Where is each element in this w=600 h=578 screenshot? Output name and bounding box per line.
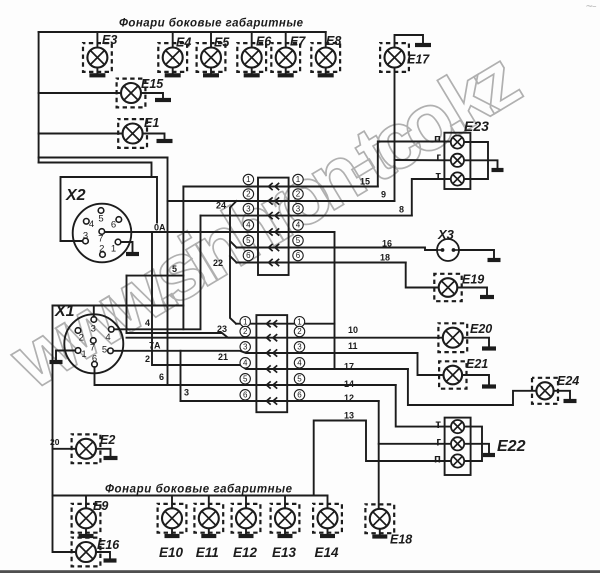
wire wire17 E24: [408, 369, 537, 405]
lamp E14: [313, 504, 342, 533]
svg-text:E2: E2: [100, 433, 115, 447]
svg-text:E8: E8: [326, 34, 341, 48]
wire wire3 riser: [180, 351, 182, 401]
ground E14: [320, 534, 335, 538]
svg-text:⁓–: ⁓–: [586, 3, 597, 10]
wire E14 stub: [327, 496, 329, 509]
svg-text:1: 1: [243, 317, 248, 326]
pin number 1: [294, 317, 304, 327]
svg-text:1: 1: [246, 175, 251, 184]
svg-text:9: 9: [381, 190, 386, 200]
wire E11 stub: [208, 496, 210, 509]
wire row4: [258, 231, 335, 233]
wire X1 pin6 wire 6: [95, 367, 257, 385]
svg-text:т: т: [435, 419, 441, 431]
lamp E23 p: [451, 135, 464, 148]
wire E13 gnd stub: [284, 529, 286, 535]
svg-text:12: 12: [344, 393, 354, 403]
svg-text:3: 3: [91, 324, 96, 335]
wire l-row1: [236, 323, 335, 325]
pin number 5: [294, 374, 304, 384]
connector X3: [437, 239, 459, 261]
svg-text:п: п: [434, 454, 441, 466]
wire E23 g out: [464, 160, 498, 168]
wire E1 gnd wire: [143, 134, 165, 140]
pin number 6: [294, 390, 304, 400]
svg-text:E24: E24: [557, 374, 579, 388]
wire X1 pin4 wire 4: [114, 216, 200, 330]
svg-text:5: 5: [243, 375, 248, 384]
pin number 1: [293, 174, 303, 184]
svg-text:15: 15: [360, 177, 370, 187]
wire chain to5: [230, 241, 237, 248]
wire E1 feed: [39, 133, 123, 135]
svg-text:14: 14: [344, 379, 354, 389]
ground E12: [239, 534, 254, 538]
wire vert x151 wire 2: [152, 232, 256, 369]
pin number 5: [243, 235, 253, 245]
wire E7 gnd stub: [285, 68, 287, 74]
wire E23 p out: [464, 142, 488, 179]
svg-text:5: 5: [296, 236, 301, 245]
svg-text:Фонари боковые габаритные: Фонари боковые габаритные: [119, 18, 304, 30]
lamp E17: [380, 43, 409, 72]
wire wire14 E22t: [396, 385, 452, 427]
wire l-row6: [181, 400, 379, 402]
svg-text:т: т: [435, 171, 441, 183]
ground E16: [104, 558, 117, 562]
svg-text:1: 1: [296, 175, 301, 184]
svg-text:16: 16: [382, 239, 392, 249]
svg-text:6: 6: [243, 391, 248, 400]
svg-text:2: 2: [79, 333, 84, 344]
wire E18 gnd stub: [379, 529, 381, 535]
wire E22 t out: [464, 427, 482, 461]
pin X1-3: [91, 317, 97, 323]
svg-text:E7: E7: [290, 35, 306, 49]
svg-text:2: 2: [296, 190, 301, 199]
wire E15 gnd wire: [141, 93, 163, 98]
wire l-row5: [256, 384, 395, 386]
wire wire5 chain: [126, 276, 128, 333]
svg-text:1: 1: [111, 244, 116, 255]
lamp E22 t: [451, 420, 464, 433]
svg-text:4: 4: [296, 221, 301, 230]
svg-text:E14: E14: [315, 545, 340, 560]
svg-text:X2: X2: [65, 187, 86, 204]
ground E20: [482, 346, 496, 350]
svg-text:20: 20: [50, 437, 60, 447]
svg-text:E11: E11: [196, 545, 219, 560]
lamp E2: [72, 434, 101, 463]
wire X3 out: [454, 249, 460, 251]
wire E15 feed: [39, 92, 121, 94]
ground E21: [482, 384, 496, 388]
wire wire11 E21: [418, 353, 443, 375]
lamp E9: [72, 504, 101, 533]
wire E10 gnd stub: [171, 529, 173, 535]
svg-text:5: 5: [297, 375, 302, 384]
svg-text:Х3: Х3: [437, 227, 455, 242]
ground E2: [104, 456, 118, 460]
svg-text:E20: E20: [470, 322, 492, 336]
svg-text:E10: E10: [159, 545, 184, 560]
ground E9: [79, 534, 94, 538]
svg-text:21: 21: [218, 352, 228, 362]
pin number 3: [293, 203, 303, 213]
wire E12 stub: [245, 496, 247, 509]
ground E17: [415, 43, 431, 47]
svg-text:0А: 0А: [154, 223, 166, 233]
lamp E13: [271, 504, 300, 533]
wire row6: [237, 262, 406, 264]
wire wire12 branch g: [379, 443, 452, 445]
ground E18: [372, 534, 387, 538]
svg-text:3: 3: [243, 343, 248, 352]
svg-text:17: 17: [344, 362, 354, 372]
wire bottom bus: [53, 495, 328, 497]
ground E7: [278, 73, 294, 77]
wire row2: [258, 200, 395, 202]
svg-text:2: 2: [243, 327, 248, 336]
wire E7 stub: [285, 32, 287, 48]
wire wire5 riser: [182, 187, 184, 330]
svg-text:6: 6: [159, 372, 164, 382]
wire left bus: [38, 32, 40, 163]
wire E6 stub: [251, 32, 253, 48]
svg-text:2: 2: [145, 354, 150, 364]
wire l-row3: [256, 352, 417, 354]
wire E17 top: [395, 35, 424, 48]
svg-text:E6: E6: [256, 35, 272, 49]
wire X1 pin3 riser wire 5: [93, 306, 95, 317]
wire top bus: [39, 31, 326, 33]
svg-text:E23: E23: [464, 118, 489, 134]
svg-text:11: 11: [348, 341, 358, 351]
wire E3 stub: [96, 32, 98, 48]
lamp E18: [365, 504, 394, 533]
svg-text:2: 2: [99, 244, 104, 255]
svg-text:3: 3: [246, 204, 251, 213]
pin number 5: [240, 374, 250, 384]
scan edge bottom: [0, 570, 600, 573]
wire E12 gnd stub: [245, 529, 247, 535]
wire E11 gnd stub: [208, 529, 210, 535]
pin number 2: [293, 189, 303, 199]
ground E19: [480, 295, 494, 299]
lamp E12: [232, 504, 261, 533]
pin number 6: [293, 250, 303, 260]
pin number 1: [240, 317, 250, 327]
pin number 3: [243, 203, 253, 213]
svg-text:10: 10: [348, 325, 358, 335]
lamp E21: [439, 361, 466, 388]
pin number 1: [243, 174, 253, 184]
wire X3 out2: [459, 250, 494, 258]
svg-text:18: 18: [380, 253, 390, 263]
pin number 3: [294, 342, 304, 352]
ground E24: [564, 399, 577, 403]
lamp E22 g: [451, 437, 464, 450]
wire E4 stub: [172, 32, 174, 48]
wire wire 0A down: [334, 232, 336, 369]
lamp cluster E22: [445, 418, 471, 475]
pin X1-1: [75, 348, 81, 354]
svg-text:E22: E22: [497, 438, 526, 455]
ground X1 pin1: [50, 360, 63, 364]
svg-text:E5: E5: [214, 36, 230, 50]
svg-text:4: 4: [246, 221, 251, 230]
pin number 2: [240, 326, 250, 336]
wire chain to6: [230, 256, 237, 263]
lamp E11: [194, 504, 223, 533]
wire row5: [237, 248, 440, 251]
ground E6: [244, 73, 260, 77]
lamp E20: [438, 323, 467, 352]
lamp E4: [158, 43, 187, 72]
wire l-row2: [127, 337, 443, 339]
svg-text:Фонари боковые габаритные: Фонари боковые габаритные: [105, 484, 293, 496]
svg-text:E18: E18: [390, 533, 412, 547]
pin X2-7: [99, 229, 105, 235]
lamp E15: [117, 79, 146, 108]
svg-text:E12: E12: [233, 545, 258, 560]
wire E8 stub: [325, 32, 327, 48]
wire X2 pin7 wire 0A: [105, 231, 258, 233]
pin number 5: [293, 235, 303, 245]
svg-text:3: 3: [184, 388, 189, 398]
lamp E8: [311, 43, 340, 72]
wire left bus lower: [53, 306, 77, 553]
wire E9 gnd stub: [85, 529, 87, 535]
wire wire13 E22p: [314, 421, 452, 496]
svg-text:8: 8: [399, 205, 404, 215]
pin X2-3: [83, 238, 89, 244]
svg-text:E1: E1: [144, 116, 159, 130]
ground E22: [483, 453, 495, 457]
wire E21 gnd wire: [463, 375, 489, 385]
lamp E1: [118, 119, 147, 148]
wire wire15: [378, 142, 451, 187]
svg-text:7А: 7А: [149, 341, 161, 351]
wire E20 gnd wire: [463, 338, 489, 347]
pin number 2: [243, 189, 253, 199]
wire bus drop y162: [39, 163, 152, 178]
svg-text:4: 4: [105, 332, 110, 343]
svg-text:4: 4: [243, 359, 248, 368]
pin number 4: [240, 358, 250, 368]
svg-text:E17: E17: [407, 53, 430, 67]
svg-text:6: 6: [297, 391, 302, 400]
ground E23: [492, 168, 504, 172]
pin number 2: [294, 326, 304, 336]
pin number 6: [240, 390, 250, 400]
svg-text:24: 24: [216, 201, 226, 211]
ground E1: [157, 139, 173, 143]
ground E8: [318, 73, 334, 77]
lamp E22 p: [451, 454, 464, 467]
svg-text:2: 2: [297, 327, 302, 336]
wire X1 pin1 gnd wire: [56, 351, 75, 361]
svg-text:6: 6: [111, 220, 116, 231]
svg-text:E15: E15: [141, 77, 164, 91]
wire E24 gnd wire: [554, 391, 571, 399]
lamp E24: [532, 378, 558, 404]
svg-text:2: 2: [246, 190, 251, 199]
wire E22 g out: [464, 444, 489, 453]
svg-text:6: 6: [246, 251, 251, 260]
pin X2-2: [100, 252, 106, 258]
ground X3: [488, 258, 501, 262]
ground E15: [155, 98, 171, 102]
wire row1: [183, 186, 377, 188]
pin number 3: [240, 342, 250, 352]
lamp cluster E23: [444, 133, 470, 189]
svg-text:1: 1: [81, 349, 86, 360]
lamp E7: [271, 43, 300, 72]
svg-text:6: 6: [92, 354, 97, 365]
lamp E19: [434, 274, 461, 301]
wire E5 stub: [210, 32, 212, 48]
svg-text:E4: E4: [176, 36, 191, 50]
svg-text:6: 6: [296, 251, 301, 260]
svg-text:E19: E19: [462, 273, 484, 287]
wire wire23 chain: [127, 333, 257, 338]
svg-text:г: г: [436, 437, 441, 449]
watermark www.sinhron-tco.kz: [0, 33, 535, 406]
wire E19 gnd wire: [457, 288, 487, 296]
svg-text:п: п: [434, 134, 441, 146]
svg-text:13: 13: [344, 411, 354, 421]
wire E10 stub: [171, 496, 173, 509]
wire X2 pin3 wire: [61, 240, 83, 242]
lamp E10: [158, 504, 187, 533]
wire l-row4: [256, 368, 408, 370]
wire wire18 E19: [406, 263, 439, 288]
pin X1-4: [109, 327, 115, 333]
pin X2-6: [116, 217, 122, 223]
pin X1-5: [108, 348, 114, 354]
pin number 4: [294, 358, 304, 368]
pin X1-6: [92, 362, 98, 368]
wire X2 box: [61, 177, 158, 241]
svg-text:E3: E3: [102, 33, 117, 47]
pin X2-5: [98, 208, 104, 214]
svg-text:7: 7: [90, 343, 95, 354]
wire wire9 / E23g: [395, 159, 452, 161]
wire E2 gnd wire: [96, 449, 111, 456]
svg-text:5: 5: [246, 236, 251, 245]
lamp E23 t: [451, 172, 464, 185]
wire X1 pin5 wire 7A: [113, 351, 256, 353]
wire E5 gnd stub: [210, 68, 212, 74]
pin X1-2: [75, 328, 81, 334]
ground E3: [89, 73, 105, 77]
wire row3: [201, 215, 412, 217]
wire E17 down / wire to pin2 and E23-г: [394, 68, 396, 202]
wire wire5 chain2: [127, 275, 184, 277]
wire chain 2-5-6-l1: [230, 201, 237, 324]
wire bus drop y157: [39, 157, 168, 159]
svg-text:3: 3: [296, 204, 301, 213]
pin number 6: [243, 250, 253, 260]
pin number 4: [293, 220, 303, 230]
svg-text:г: г: [436, 152, 441, 164]
wire E8 gnd stub: [325, 68, 327, 74]
svg-text:4: 4: [145, 318, 150, 328]
wire X2 pin1 gnd wire: [121, 242, 133, 252]
wire E9 stub: [85, 496, 87, 509]
pin X2-4: [84, 219, 90, 225]
svg-text:3: 3: [297, 343, 302, 352]
lamp E3: [83, 43, 112, 72]
wire E4 gnd stub: [172, 68, 174, 74]
pin number 4: [243, 220, 253, 230]
svg-text:5: 5: [102, 345, 107, 356]
svg-text:4: 4: [89, 219, 94, 230]
lamp E23 g: [451, 154, 464, 167]
ground E11: [201, 534, 216, 538]
wire upper2 branch: [168, 200, 259, 202]
svg-text:5: 5: [98, 214, 103, 225]
wire X3 in stub: [437, 249, 442, 251]
wire E16 gnd wire: [96, 552, 110, 559]
svg-text:4: 4: [297, 359, 302, 368]
svg-text:3: 3: [83, 231, 88, 242]
pin X2-1: [115, 239, 121, 245]
wire wire8: [412, 179, 451, 216]
svg-text:E9: E9: [93, 499, 108, 513]
svg-text:E21: E21: [466, 357, 488, 371]
svg-text:23: 23: [217, 324, 227, 334]
svg-text:E13: E13: [272, 545, 297, 560]
ground E10: [165, 534, 180, 538]
wire E3 gnd stub: [96, 68, 98, 74]
svg-text:1: 1: [297, 317, 302, 326]
wire E13 stub: [284, 496, 286, 509]
wire pin3 node horizontal: [53, 305, 184, 307]
svg-text:22: 22: [213, 258, 223, 268]
lamp E16: [72, 538, 101, 567]
ground E5: [203, 73, 219, 77]
wire E2 feed: [53, 448, 77, 450]
lamp E5: [197, 43, 226, 72]
svg-text:5: 5: [172, 264, 177, 274]
wire E14 gnd stub: [327, 529, 329, 535]
wire vert x167: [167, 158, 169, 386]
ground X2 pin1: [126, 252, 139, 256]
wire wire12 E22g E18: [378, 401, 380, 509]
ground E4: [165, 73, 181, 77]
wire E6 gnd stub: [251, 68, 253, 74]
pin X1-7: [91, 338, 97, 344]
lamp E6: [237, 43, 266, 72]
ground E13: [278, 534, 293, 538]
